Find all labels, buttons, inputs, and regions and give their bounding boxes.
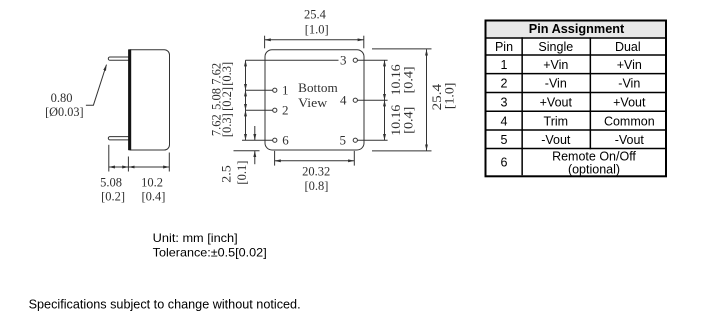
- svg-text:View: View: [298, 95, 328, 110]
- svg-text:+Vout: +Vout: [613, 96, 646, 110]
- svg-text:4: 4: [501, 114, 508, 128]
- svg-text:5.08: 5.08: [100, 175, 122, 189]
- svg-text:[1.0]: [1.0]: [442, 83, 456, 110]
- svg-text:0.80: 0.80: [51, 91, 73, 105]
- svg-text:[0.1]: [0.1]: [235, 161, 249, 185]
- svg-text:Single: Single: [538, 40, 573, 54]
- svg-text:5: 5: [340, 133, 347, 148]
- svg-text:+Vout: +Vout: [540, 96, 573, 110]
- svg-text:4: 4: [340, 93, 347, 108]
- svg-text:25.4: 25.4: [304, 7, 327, 21]
- svg-text:[0.4]: [0.4]: [142, 190, 166, 204]
- svg-text:Dual: Dual: [615, 40, 641, 54]
- svg-text:[0.4]: [0.4]: [402, 66, 416, 93]
- svg-text:2.5: 2.5: [219, 165, 233, 183]
- svg-text:-Vin: -Vin: [545, 77, 567, 91]
- svg-text:-Vin: -Vin: [618, 77, 640, 91]
- svg-text:+Vin: +Vin: [617, 58, 642, 72]
- svg-text:6: 6: [501, 156, 508, 170]
- svg-text:10.2: 10.2: [141, 175, 163, 189]
- svg-text:2: 2: [501, 77, 508, 91]
- svg-text:Trim: Trim: [544, 114, 569, 128]
- svg-text:[0.2]: [0.2]: [220, 87, 234, 111]
- svg-text:Bottom: Bottom: [298, 80, 338, 95]
- svg-text:[Ø0.03]: [Ø0.03]: [45, 105, 84, 119]
- svg-text:[0.3]: [0.3]: [220, 113, 234, 137]
- svg-text:20.32: 20.32: [302, 165, 330, 179]
- svg-text:Tolerance:±0.5[0.02]: Tolerance:±0.5[0.02]: [153, 245, 267, 259]
- svg-text:1: 1: [282, 83, 289, 98]
- svg-text:6: 6: [282, 133, 289, 148]
- svg-text:2: 2: [282, 103, 289, 118]
- svg-text:Common: Common: [604, 114, 655, 128]
- svg-text:Specifications subject to chan: Specifications subject to change without…: [29, 297, 301, 311]
- svg-text:-Vout: -Vout: [541, 133, 571, 147]
- svg-text:3: 3: [340, 53, 347, 68]
- svg-text:[0.2]: [0.2]: [101, 190, 125, 204]
- svg-text:(optional): (optional): [568, 162, 620, 176]
- svg-text:[0.3]: [0.3]: [220, 62, 234, 86]
- svg-text:[0.4]: [0.4]: [402, 107, 416, 134]
- svg-text:Pin: Pin: [495, 40, 513, 54]
- svg-text:Remote On/Off: Remote On/Off: [552, 149, 636, 163]
- svg-text:1: 1: [501, 58, 508, 72]
- svg-text:5: 5: [501, 133, 508, 147]
- svg-text:[1.0]: [1.0]: [305, 22, 329, 36]
- svg-text:3: 3: [501, 96, 508, 110]
- svg-text:+Vin: +Vin: [543, 58, 568, 72]
- svg-text:[0.8]: [0.8]: [305, 179, 329, 193]
- svg-text:-Vout: -Vout: [615, 133, 645, 147]
- svg-text:Unit: mm [inch]: Unit: mm [inch]: [153, 231, 238, 245]
- svg-text:Pin Assignment: Pin Assignment: [529, 22, 625, 36]
